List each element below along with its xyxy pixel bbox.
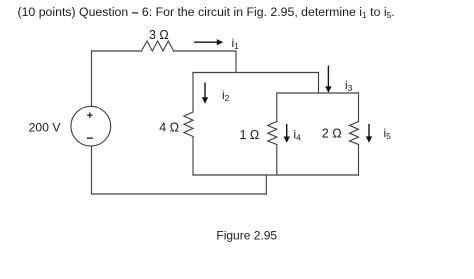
wire: left edge above 4ohm (192, 73, 194, 113)
current arrow i5 (368, 124, 370, 138)
wire: node A to inner box top (318, 73, 320, 94)
wire: bottom node horizontal (193, 174, 359, 176)
wire: inner left below 1ohm (276, 145, 278, 176)
svg-text:−: − (86, 131, 93, 145)
wire: 3ohm to corner (174, 50, 237, 52)
svg-text:Figure 2.95: Figure 2.95 (216, 229, 277, 243)
current arrow i4 (286, 124, 288, 138)
wire: left edge below 4ohm (192, 137, 194, 176)
current arrow i3 (327, 66, 329, 89)
wire: inner right below 2ohm (358, 145, 360, 176)
svg-text:1 Ω: 1 Ω (240, 128, 260, 142)
wire: inner left above 1ohm (276, 93, 278, 122)
wire: return drop from bottom node (265, 175, 267, 194)
wire: top node A horizontal (193, 72, 319, 74)
wire: return up to source bottom (91, 146, 93, 194)
wire: source top up to top wire (91, 51, 93, 106)
wire: inner right above 2ohm (358, 93, 360, 122)
svg-text:(10 points) Question – 6: For: (10 points) Question – 6: For the circui… (18, 5, 395, 20)
svg-text:2 Ω: 2 Ω (322, 127, 342, 141)
resistor 2ohm zigzag (350, 122, 359, 145)
wire: source top to resistor 3ohm (92, 50, 142, 52)
wire: bottom return horizontal (92, 193, 267, 195)
wire: i1 drop to node A (235, 51, 237, 73)
resistor 4ohm zigzag (184, 112, 193, 137)
current arrow i1 (194, 39, 372, 143)
wire: inner top node horizontal (277, 92, 359, 94)
svg-text:4 Ω: 4 Ω (159, 120, 179, 134)
resistor 1ohm zigzag (268, 122, 277, 145)
svg-text:3 Ω: 3 Ω (149, 28, 169, 42)
svg-text:+: + (87, 110, 93, 122)
current arrow i2 (204, 83, 206, 100)
svg-text:200 V: 200 V (29, 121, 62, 135)
resistor 3ohm zigzag (142, 41, 174, 51)
voltage source V1 200V circle (71, 106, 111, 146)
